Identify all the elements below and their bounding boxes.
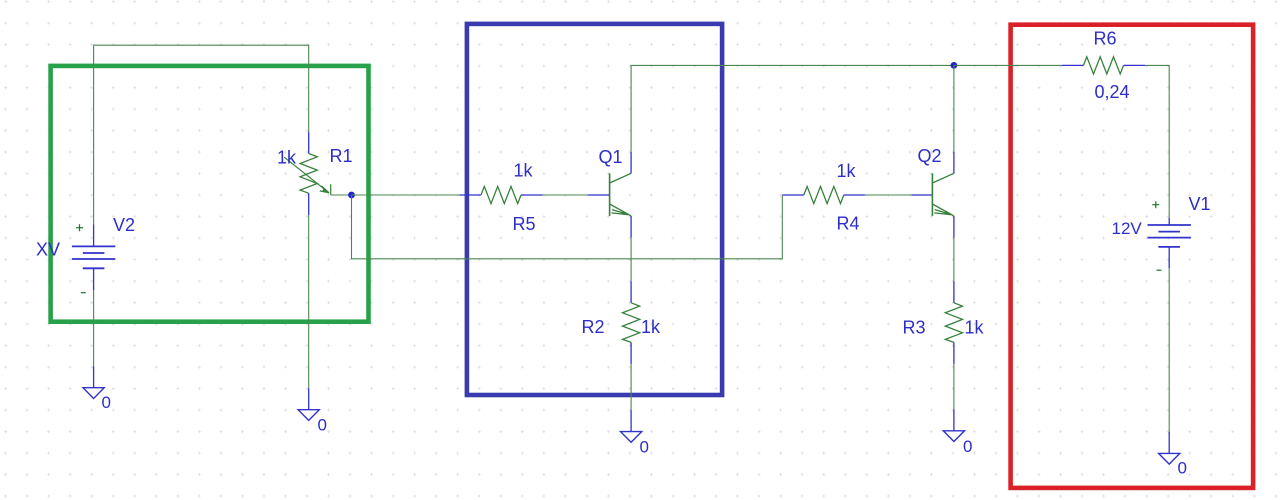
svg-text:V2: V2 <box>113 215 135 235</box>
pin Q2 base <box>911 194 932 196</box>
pin R2 ground stub <box>630 410 632 432</box>
pin Q2 emitter <box>953 216 955 238</box>
red highlight box <box>1011 25 1254 488</box>
pin R5 left <box>460 194 482 196</box>
svg-text:R5: R5 <box>513 214 536 234</box>
wire R5 to Q1 base <box>543 194 588 196</box>
resistor R3 zigzag <box>945 303 962 343</box>
battery V1 plates <box>1148 225 1191 247</box>
pin R6 left <box>1062 64 1084 66</box>
transistor Q2 <box>932 173 954 216</box>
svg-text:1k: 1k <box>965 318 985 338</box>
svg-text:0: 0 <box>318 415 327 434</box>
ground R2 <box>621 432 642 443</box>
pin Q1 collector <box>630 152 632 174</box>
resistor R4 zigzag <box>804 186 844 203</box>
R1 wiper arrow <box>284 157 331 195</box>
svg-text:V1: V1 <box>1189 194 1211 214</box>
wire R1 bottom to ground <box>308 215 310 388</box>
pin V2 bottom <box>93 268 95 290</box>
svg-text:1k: 1k <box>514 161 534 181</box>
wire Q2 emitter to R3 <box>953 237 955 281</box>
pin V1 top <box>1168 218 1170 225</box>
transistor Q1 <box>610 173 632 216</box>
resistor R5 zigzag <box>481 186 521 203</box>
pin R6 right <box>1124 64 1146 66</box>
polarity marks V2 <box>76 224 86 293</box>
wire R3 to ground <box>953 364 955 409</box>
wire top loop V2 to R1 <box>94 45 309 224</box>
wire V1 to ground <box>1168 268 1170 432</box>
ground V1 <box>1159 453 1180 464</box>
pin R1 top <box>308 132 310 154</box>
pin V1 bottom <box>1168 247 1170 269</box>
node junction A <box>348 192 355 199</box>
svg-text:R2: R2 <box>582 317 605 337</box>
pin V2 top <box>93 225 95 247</box>
svg-text:1k: 1k <box>641 317 661 337</box>
pin R2 top <box>630 281 632 303</box>
svg-text:0: 0 <box>640 438 649 457</box>
wire junction down and across to R4 <box>352 195 783 259</box>
wire R2 to ground <box>630 364 632 410</box>
pin R4 left <box>782 194 804 196</box>
pin R5 right <box>521 194 543 196</box>
green highlight box <box>51 66 369 322</box>
wire wiper to junction <box>331 194 352 196</box>
svg-text:R4: R4 <box>837 213 860 233</box>
pin R1 ground stub <box>308 388 310 410</box>
resistor R6 zigzag <box>1084 57 1124 74</box>
pin Q1 emitter <box>630 216 632 238</box>
ground R3 <box>943 431 964 442</box>
wire node B to R6 <box>954 64 1062 66</box>
battery V2 plates <box>72 246 115 268</box>
svg-text:0,24: 0,24 <box>1095 82 1130 102</box>
svg-text:0: 0 <box>963 437 972 456</box>
pin V1 ground stub <box>1168 432 1170 454</box>
svg-text:R6: R6 <box>1094 29 1117 49</box>
wire Q1 emitter to R2 <box>630 237 632 281</box>
wire R6 to V1 <box>1145 65 1169 217</box>
node junction B <box>951 62 958 69</box>
svg-text:R1: R1 <box>330 146 353 166</box>
ground V2 <box>83 388 104 399</box>
pin R3 bottom <box>953 342 955 364</box>
pin Q1 base <box>588 194 610 196</box>
pin R4 right <box>844 194 866 196</box>
resistor R2 zigzag <box>623 303 640 343</box>
blue highlight box <box>467 24 722 395</box>
ground R1 <box>298 410 319 421</box>
wire node B down to Q2 collector <box>953 65 955 151</box>
pin Q2 collector <box>953 152 955 174</box>
svg-text:12V: 12V <box>1112 219 1143 238</box>
svg-text:XV: XV <box>36 240 60 260</box>
svg-text:0: 0 <box>102 393 111 412</box>
wire Q1 collector up and across to node B <box>631 65 954 151</box>
svg-text:Q1: Q1 <box>599 147 623 167</box>
polarity marks V1 <box>1152 201 1161 270</box>
svg-text:R3: R3 <box>903 318 926 338</box>
svg-text:0: 0 <box>1178 459 1187 478</box>
svg-text:1k: 1k <box>277 148 297 168</box>
pin R3 ground stub <box>953 409 955 431</box>
pin R1 bottom <box>308 193 310 215</box>
resistor R1 zigzag <box>300 154 317 194</box>
svg-text:1k: 1k <box>837 161 857 181</box>
pin R2 bottom <box>630 342 632 364</box>
wire V2 bottom to ground <box>93 290 95 366</box>
pin V2 ground stub <box>93 366 95 388</box>
wire R4 to Q2 base <box>865 194 911 196</box>
svg-text:Q2: Q2 <box>918 146 942 166</box>
wire junction to R5 <box>352 194 460 196</box>
pin R3 top <box>953 281 955 303</box>
